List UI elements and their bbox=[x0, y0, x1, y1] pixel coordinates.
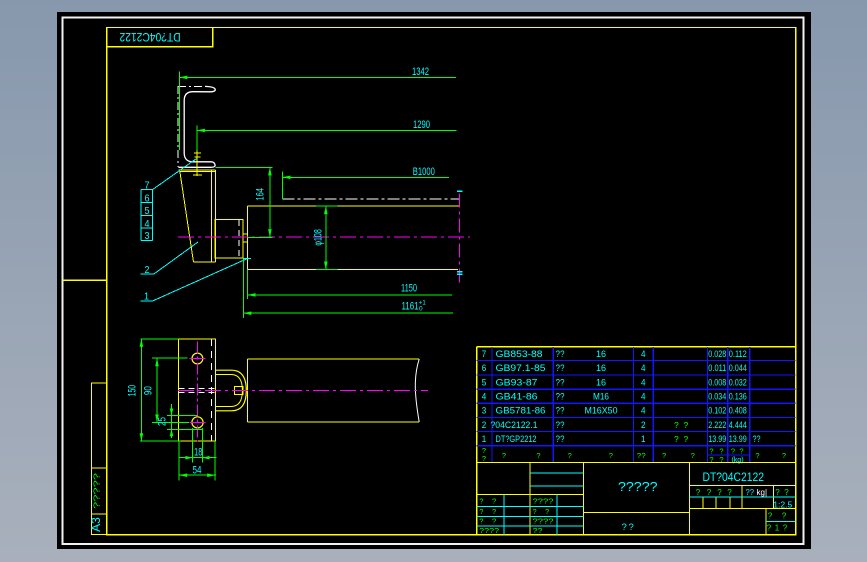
BOM column line 2 bbox=[552, 347, 554, 463]
svg-text:?: ? bbox=[767, 524, 772, 533]
dim 150 arrows bbox=[140, 339, 144, 347]
dim 25 ext top bbox=[167, 415, 198, 417]
dim 18 ext left bbox=[191, 428, 193, 463]
right cyan h-lines bbox=[689, 496, 795, 498]
roller pin box bbox=[235, 387, 243, 395]
svg-text:0.011: 0.011 bbox=[708, 363, 726, 373]
left strip box middle bbox=[92, 468, 108, 514]
title v-line 530 bbox=[529, 463, 531, 535]
svg-text:?: ? bbox=[768, 511, 773, 520]
svg-text:??: ?? bbox=[556, 406, 565, 416]
leader 2 bbox=[154, 242, 198, 274]
svg-text:5: 5 bbox=[482, 377, 487, 387]
title h-line 508.6 right bbox=[689, 508, 795, 510]
svg-text:?: ? bbox=[533, 507, 537, 516]
hole bottom bbox=[192, 417, 203, 428]
hole bottom cross tick bbox=[190, 421, 206, 423]
dim 25 line bbox=[171, 404, 173, 438]
dim 150 line bbox=[140, 339, 142, 441]
roller break line white bbox=[415, 359, 419, 422]
svg-text:18: 18 bbox=[194, 446, 203, 458]
svg-text:?: ? bbox=[482, 454, 486, 463]
svg-text:?: ? bbox=[662, 451, 666, 460]
svg-text:150: 150 bbox=[126, 385, 138, 397]
belt line B dash-dot white bbox=[282, 198, 459, 200]
bracket 2 right outer edge bbox=[214, 170, 216, 262]
svg-text:B1000: B1000 bbox=[413, 166, 435, 178]
svg-text:16: 16 bbox=[596, 377, 606, 387]
cyan tick top of section line bbox=[457, 190, 462, 192]
svg-text:6: 6 bbox=[145, 193, 150, 204]
item ladder rung 5 bbox=[141, 239, 152, 241]
dim 18 arrows outside bbox=[185, 456, 192, 460]
svg-text:?: ? bbox=[674, 434, 679, 444]
svg-text:φ108: φ108 bbox=[313, 229, 325, 246]
svg-text:0.008: 0.008 bbox=[708, 377, 726, 387]
left strip box top bbox=[92, 383, 108, 468]
cyan tick bottom pair of section line bbox=[457, 271, 462, 273]
svg-text:?????: ????? bbox=[92, 473, 102, 509]
svg-text:GB93-87: GB93-87 bbox=[496, 377, 538, 387]
dim phi108 arrows bbox=[324, 206, 328, 214]
svg-text:0: 0 bbox=[419, 306, 423, 313]
channel C1 left edge dash-dot bbox=[177, 86, 179, 167]
BOM column line 4 bbox=[652, 347, 654, 463]
svg-text:13.99: 13.99 bbox=[708, 434, 726, 444]
svg-text:?: ? bbox=[674, 420, 679, 430]
svg-text:M16X50: M16X50 bbox=[585, 406, 618, 416]
bracket 2 top edge line2 bbox=[180, 171, 216, 173]
dim phi108 line bbox=[325, 206, 327, 269]
svg-text:GB5781-86: GB5781-86 bbox=[496, 406, 546, 416]
svg-text:54: 54 bbox=[193, 465, 202, 477]
BOM header labels green bbox=[482, 446, 786, 464]
channel C1 top edge dash-dot bbox=[178, 85, 206, 87]
bracket 2 left slant edge bbox=[180, 172, 194, 262]
roller front centerline magenta bbox=[178, 389, 428, 391]
svg-text:25: 25 bbox=[157, 417, 169, 426]
svg-text:13.99: 13.99 bbox=[729, 434, 747, 444]
dim 1342 arrow bbox=[179, 76, 187, 80]
svg-text:0.102: 0.102 bbox=[708, 406, 726, 416]
dim 54 ext left bbox=[178, 441, 180, 481]
leader 7 bbox=[152, 159, 196, 190]
dim 54 ext right bbox=[214, 441, 216, 481]
BOM row line 3 bbox=[477, 388, 796, 390]
svg-text:2: 2 bbox=[641, 420, 646, 430]
dim 90 ext top bbox=[152, 357, 187, 359]
svg-text:?: ? bbox=[691, 451, 695, 460]
dim 150 ext bottom bbox=[140, 440, 181, 442]
bracket 2 top edge line1 bbox=[179, 169, 216, 171]
svg-text:?: ? bbox=[755, 451, 759, 460]
svg-text:2: 2 bbox=[145, 265, 150, 276]
svg-text:?: ? bbox=[782, 511, 787, 520]
item ladder rung 3 bbox=[141, 215, 152, 217]
BOM row 2 text bbox=[482, 420, 747, 430]
svg-text:?: ? bbox=[782, 451, 786, 460]
signature rows cyan lines bbox=[477, 505, 584, 507]
roller front bottom edge bbox=[247, 421, 419, 423]
svg-text:1: 1 bbox=[144, 292, 149, 303]
title v-line 689 bbox=[688, 463, 690, 535]
svg-text:4: 4 bbox=[641, 377, 646, 387]
item 1 underline bbox=[141, 300, 153, 302]
leader 1 tip bbox=[244, 258, 251, 260]
svg-text:4: 4 bbox=[482, 392, 487, 402]
item 2 underline bbox=[141, 273, 154, 275]
dim 1290 line bbox=[197, 129, 457, 131]
svg-text:4: 4 bbox=[641, 349, 646, 359]
svg-text:?: ? bbox=[492, 496, 496, 505]
svg-text:0.028: 0.028 bbox=[708, 349, 726, 359]
BOM row line 4 bbox=[477, 402, 796, 404]
signature labels left column bbox=[479, 496, 553, 535]
dim 164 extension top bbox=[216, 166, 273, 168]
dim 25 arrows outside bbox=[170, 409, 174, 416]
svg-text:????: ???? bbox=[479, 526, 499, 535]
svg-text:?: ? bbox=[492, 507, 496, 516]
svg-text:0.136: 0.136 bbox=[729, 392, 747, 402]
title block outer bbox=[477, 463, 796, 535]
svg-text:DT?GP2212: DT?GP2212 bbox=[496, 434, 537, 444]
svg-text:?: ? bbox=[609, 451, 613, 460]
svg-text:1:2.5: 1:2.5 bbox=[773, 499, 792, 509]
svg-text:2: 2 bbox=[482, 420, 487, 430]
BOM row line 1 bbox=[477, 359, 796, 361]
dim 150 ext top bbox=[140, 338, 178, 340]
svg-text:??: ?? bbox=[637, 451, 646, 460]
svg-text:?04C2122.1: ?04C2122.1 bbox=[491, 420, 538, 430]
svg-text:7: 7 bbox=[482, 349, 487, 359]
channel C1 body outline bbox=[178, 86, 215, 167]
svg-text:?: ? bbox=[629, 522, 634, 533]
bracket 2 bottom edge bbox=[194, 261, 216, 263]
item ladder rung 4 bbox=[141, 227, 152, 229]
svg-text:?: ? bbox=[684, 420, 689, 430]
bolt tick 1 bbox=[194, 152, 201, 154]
svg-text:0.112: 0.112 bbox=[729, 349, 747, 359]
BOM row 4 text bbox=[482, 392, 747, 402]
BOM row 7 text bbox=[482, 349, 747, 359]
svg-text:2.222: 2.222 bbox=[708, 420, 726, 430]
svg-text:??: ?? bbox=[746, 488, 755, 497]
BOM row line 5 bbox=[477, 416, 796, 418]
BOM column line 6 bbox=[727, 347, 729, 463]
svg-text:1342: 1342 bbox=[412, 66, 429, 78]
svg-text:16: 16 bbox=[596, 363, 606, 373]
BOM row line 6 bbox=[477, 431, 796, 433]
svg-text:?: ? bbox=[731, 447, 735, 456]
signature cyan v-lines bbox=[503, 495, 505, 535]
dim B1000 line bbox=[283, 176, 450, 178]
top-left code box bbox=[107, 28, 213, 47]
item ladder rung 1 bbox=[141, 189, 152, 191]
leader 1 diagonal bbox=[153, 259, 247, 301]
svg-text:0.408: 0.408 bbox=[729, 406, 747, 416]
title h-line 485.3 right bbox=[689, 484, 795, 486]
dim 1161 line bbox=[243, 312, 453, 314]
svg-text:?: ? bbox=[784, 488, 789, 497]
dim 25 ext bottom bbox=[167, 428, 203, 430]
dim 1150 line bbox=[248, 294, 453, 296]
svg-text:?: ? bbox=[727, 488, 732, 497]
svg-text:kg|: kg| bbox=[757, 488, 768, 497]
bolt tick 3 bbox=[193, 174, 202, 176]
clevis inner contour bbox=[215, 375, 242, 407]
svg-text:??: ?? bbox=[556, 392, 565, 402]
svg-text:??: ?? bbox=[556, 377, 565, 387]
svg-text:??: ?? bbox=[556, 349, 565, 359]
dim 164 extension bottom bbox=[248, 236, 273, 238]
svg-text:?????: ????? bbox=[618, 479, 658, 494]
svg-text:4: 4 bbox=[641, 392, 646, 402]
svg-text:DT?04C2122: DT?04C2122 bbox=[120, 30, 181, 42]
roller cylinder top edge bbox=[247, 205, 459, 207]
svg-text:?: ? bbox=[622, 522, 627, 533]
svg-text:?: ? bbox=[707, 488, 712, 497]
hole centerline vertical magenta bbox=[196, 342, 198, 442]
dim 1161 extension bbox=[242, 258, 244, 318]
roller front top edge bbox=[247, 358, 419, 360]
shaft stub rectangle bbox=[243, 234, 247, 242]
plate hidden edge vertical white dashed bbox=[211, 339, 213, 441]
item ladder rung 2 bbox=[141, 202, 152, 204]
svg-text:??: ?? bbox=[556, 363, 565, 373]
clevis outer contour bbox=[215, 370, 246, 411]
dim 164 line bbox=[269, 167, 271, 237]
svg-text:?: ? bbox=[502, 451, 506, 460]
svg-text:??: ?? bbox=[556, 434, 565, 444]
hub rectangle bbox=[215, 219, 243, 258]
svg-text:?: ? bbox=[775, 488, 780, 497]
dim 54 arrows bbox=[179, 473, 187, 477]
hole top cross tick bbox=[190, 358, 206, 360]
svg-text:7: 7 bbox=[145, 181, 150, 192]
dim 1161 arrow bbox=[243, 311, 251, 315]
svg-text:GB41-86: GB41-86 bbox=[496, 392, 538, 402]
dim 1290 extension line bbox=[196, 126, 198, 151]
BOM row 6 text bbox=[482, 363, 747, 373]
svg-text:?: ? bbox=[684, 434, 689, 444]
BOM column line 7 bbox=[749, 347, 751, 463]
bolt stud yellow bbox=[196, 151, 198, 177]
title h-line 494.5 left bbox=[477, 494, 584, 496]
svg-text:??: ?? bbox=[556, 420, 565, 430]
dim 90 line bbox=[156, 358, 158, 422]
svg-text:16: 16 bbox=[596, 349, 606, 359]
dim 1342 extension line bbox=[178, 72, 180, 150]
svg-text:1150: 1150 bbox=[401, 283, 417, 295]
svg-text:????: ???? bbox=[533, 496, 554, 505]
svg-text:1290: 1290 bbox=[413, 119, 430, 131]
svg-text:?: ? bbox=[739, 447, 743, 456]
svg-text:?: ? bbox=[696, 488, 701, 497]
title v-line 583 bbox=[582, 463, 584, 535]
svg-text:??: ?? bbox=[533, 526, 543, 535]
svg-text:0.034: 0.034 bbox=[708, 392, 726, 402]
bracket 2 right inner edge bbox=[210, 170, 212, 262]
dim B1000 arrow bbox=[283, 176, 291, 180]
section line vertical magenta bbox=[458, 194, 460, 285]
roller front left edge bbox=[246, 359, 248, 422]
svg-text:A3: A3 bbox=[89, 517, 103, 532]
BOM left edge yellow bbox=[476, 347, 478, 463]
svg-text:0.032: 0.032 bbox=[729, 377, 747, 387]
BOM top edge yellow bbox=[477, 346, 796, 348]
svg-text:?: ? bbox=[492, 517, 496, 526]
plate front outline bbox=[178, 339, 215, 441]
svg-text:??: ?? bbox=[753, 434, 761, 444]
svg-text:????: ???? bbox=[533, 517, 554, 526]
svg-text:5: 5 bbox=[145, 206, 150, 217]
svg-text:1: 1 bbox=[482, 434, 487, 444]
dim B1000 extension line bbox=[282, 172, 284, 200]
BOM row line 2 bbox=[477, 374, 796, 376]
dim 54 line bbox=[179, 474, 216, 476]
dim 18 ext right bbox=[202, 428, 204, 463]
svg-text:4: 4 bbox=[145, 219, 150, 230]
svg-text:1: 1 bbox=[775, 524, 780, 533]
BOM row line 7 bbox=[477, 445, 796, 447]
BOM column line 5 bbox=[707, 347, 709, 463]
svg-text:4: 4 bbox=[641, 406, 646, 416]
svg-text:?: ? bbox=[545, 507, 549, 516]
BOM row 1 text bbox=[482, 434, 761, 444]
plate hidden line mid 2 bbox=[178, 391, 215, 393]
svg-text:?: ? bbox=[479, 517, 483, 526]
title small cell v-lines bbox=[702, 497, 704, 508]
svg-text:164: 164 bbox=[254, 188, 266, 201]
dim 1150 extension bbox=[247, 269, 249, 299]
svg-text:DT?04C2122: DT?04C2122 bbox=[703, 470, 765, 484]
svg-text:4.444: 4.444 bbox=[729, 420, 747, 430]
dim 1342 line bbox=[179, 76, 456, 78]
dim 164 arrows bbox=[268, 167, 272, 175]
yellow drawing frame bbox=[107, 28, 796, 535]
svg-text:?: ? bbox=[479, 496, 483, 505]
svg-text:GB853-88: GB853-88 bbox=[496, 349, 543, 359]
revision box cyan lines bbox=[530, 472, 583, 474]
plate hidden line mid 1 bbox=[178, 388, 215, 390]
roller cylinder left edge bbox=[246, 206, 248, 269]
svg-text:3: 3 bbox=[145, 231, 150, 242]
dim 18 line bbox=[180, 457, 217, 459]
svg-text:1: 1 bbox=[641, 434, 646, 444]
svg-text:6: 6 bbox=[482, 363, 487, 373]
dim 90 arrows bbox=[155, 358, 159, 366]
svg-text:0.044: 0.044 bbox=[729, 363, 747, 373]
roller cylinder bottom edge bbox=[247, 268, 458, 270]
center line horizontal magenta bbox=[178, 236, 470, 238]
svg-text:GB97.1-85: GB97.1-85 bbox=[496, 363, 546, 373]
svg-text:?: ? bbox=[783, 524, 788, 533]
BOM row 5 text bbox=[482, 377, 747, 387]
svg-text:?: ? bbox=[479, 507, 483, 516]
dim phi108 tick top bbox=[316, 205, 338, 207]
svg-text:M16: M16 bbox=[593, 392, 609, 402]
svg-text:1161: 1161 bbox=[402, 301, 419, 313]
BOM row 3 text bbox=[482, 406, 747, 416]
left strip box bottom A3 bbox=[92, 514, 108, 535]
BOM header kg sub line bbox=[708, 454, 750, 456]
hub hidden line white dashed bbox=[238, 220, 240, 258]
dim 1150 arrow bbox=[248, 293, 256, 297]
left centering tick bbox=[63, 279, 107, 281]
svg-text:90: 90 bbox=[142, 386, 154, 395]
dim phi108 tick bottom bbox=[316, 269, 338, 271]
hole top bbox=[192, 353, 203, 364]
svg-text:4: 4 bbox=[641, 363, 646, 373]
svg-text:3: 3 bbox=[482, 406, 487, 416]
bolt tick 2 bbox=[194, 156, 200, 158]
title h-line 512.4 middle bbox=[583, 511, 689, 513]
BOM column line 3 bbox=[633, 347, 635, 463]
svg-text:?: ? bbox=[536, 451, 540, 460]
svg-text:?: ? bbox=[717, 488, 722, 497]
svg-text:?: ? bbox=[568, 451, 572, 460]
dim 90 ext bottom bbox=[152, 422, 189, 424]
BOM column line 1 bbox=[491, 347, 493, 463]
title v-line 766 bbox=[765, 509, 767, 535]
dim 1290 arrow bbox=[197, 129, 205, 133]
item ladder rails bbox=[140, 190, 142, 241]
